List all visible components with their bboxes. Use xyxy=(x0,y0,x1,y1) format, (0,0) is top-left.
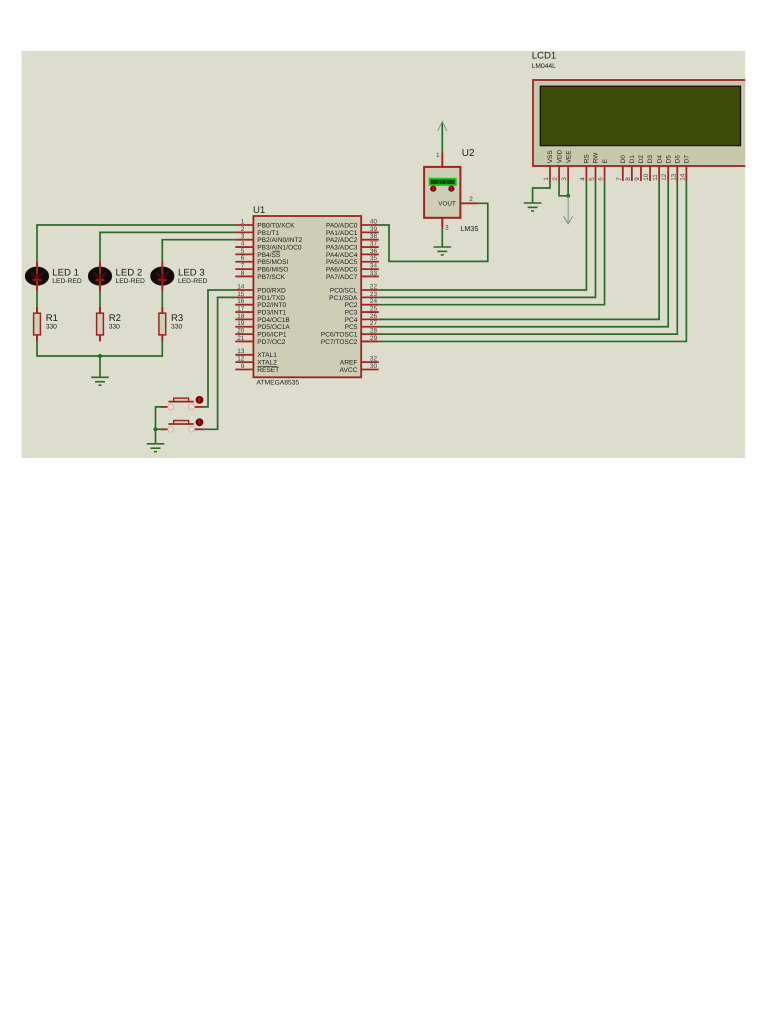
junction ground bus xyxy=(98,354,102,358)
svg-text:VEE: VEE xyxy=(565,150,572,163)
svg-text:LED-RED: LED-RED xyxy=(116,278,146,285)
svg-text:PB5/MOSI: PB5/MOSI xyxy=(257,259,288,266)
svg-text:36: 36 xyxy=(370,248,378,255)
svg-text:14: 14 xyxy=(237,283,245,290)
svg-text:17: 17 xyxy=(237,305,245,312)
pin 37 stub xyxy=(361,246,379,248)
pin 23 stub xyxy=(361,296,379,298)
svg-text:PD5/OC1A: PD5/OC1A xyxy=(257,324,290,331)
svg-text:LED-RED: LED-RED xyxy=(178,278,208,285)
wire PD1 to button2 xyxy=(204,297,236,429)
R1 top stub xyxy=(36,307,38,313)
svg-text:PA3/ADC3: PA3/ADC3 xyxy=(326,244,358,251)
pin 35 stub xyxy=(361,261,379,263)
svg-text:38: 38 xyxy=(370,233,378,240)
button 1 left terminal xyxy=(168,404,174,410)
ground LM35 xyxy=(434,247,452,255)
svg-text:6: 6 xyxy=(241,255,245,262)
svg-text:VDD: VDD xyxy=(556,149,563,163)
svg-text:LED 3: LED 3 xyxy=(178,268,205,279)
LED 2 cathode stub xyxy=(99,281,101,291)
LED 3 diode symbol xyxy=(156,273,169,279)
svg-text:U2: U2 xyxy=(462,148,475,159)
svg-text:29: 29 xyxy=(370,335,378,342)
R2 bottom stub xyxy=(99,335,101,341)
svg-text:5: 5 xyxy=(588,177,595,181)
pin 4 stub xyxy=(235,246,253,248)
LCD pin 1 stub xyxy=(549,166,551,181)
svg-text:40: 40 xyxy=(370,218,378,225)
svg-text:3: 3 xyxy=(241,233,245,240)
svg-text:1: 1 xyxy=(241,218,245,225)
LED 1 anode stub xyxy=(36,262,38,274)
LCD pin 4 stub xyxy=(585,166,587,181)
LCD pin 11 stub xyxy=(658,166,660,181)
svg-text:AREF: AREF xyxy=(340,360,358,367)
wire U2 pin1 power xyxy=(441,123,443,153)
svg-text:37: 37 xyxy=(370,240,378,247)
svg-text:7: 7 xyxy=(616,177,623,181)
svg-text:PC3: PC3 xyxy=(345,309,358,316)
pin 19 stub xyxy=(235,326,253,328)
pin 40 stub xyxy=(361,224,379,226)
svg-text:23: 23 xyxy=(370,291,378,298)
svg-text:R3: R3 xyxy=(171,313,183,324)
svg-text:3: 3 xyxy=(561,177,568,181)
wire PD0 to button1 xyxy=(204,290,236,407)
wire LCD VDD to VEE node xyxy=(559,181,568,196)
R1 bottom stub xyxy=(36,335,38,341)
R3 bottom stub xyxy=(161,335,163,341)
svg-text:10: 10 xyxy=(643,173,650,181)
svg-text:PB6/MISO: PB6/MISO xyxy=(257,267,288,274)
svg-text:PC2: PC2 xyxy=(345,302,358,309)
svg-text:LM044L: LM044L xyxy=(532,63,556,70)
svg-text:R1: R1 xyxy=(46,313,58,324)
pin 33 stub xyxy=(361,275,379,277)
button 2 right terminal xyxy=(189,426,195,432)
svg-text:PC5: PC5 xyxy=(345,324,358,331)
LED 2 body xyxy=(88,267,111,285)
power terminal arrow down (VEE) xyxy=(564,197,573,224)
op-amp U2 body (LM35 sensor) xyxy=(424,167,460,218)
svg-text:PB1/T1: PB1/T1 xyxy=(257,230,279,237)
svg-text:22: 22 xyxy=(370,283,378,290)
wire PC1 to LCD RW xyxy=(379,181,596,297)
svg-text:18: 18 xyxy=(237,313,245,320)
pin 30 stub xyxy=(361,369,379,371)
svg-text:D3: D3 xyxy=(647,155,654,164)
wire PC6 to LCD D6 xyxy=(379,181,677,334)
LED 3 body xyxy=(151,267,174,285)
svg-text:PA4/ADC4: PA4/ADC4 xyxy=(326,252,358,259)
LCD1 body (clipped at sheet edge) xyxy=(533,80,765,166)
svg-text:21: 21 xyxy=(237,335,245,342)
svg-text:PD2/INT0: PD2/INT0 xyxy=(257,302,286,309)
wire LCD VSS to ground xyxy=(533,181,550,203)
R2 top stub xyxy=(99,307,101,313)
pin 7 stub xyxy=(235,268,253,270)
LED 2 diode symbol xyxy=(94,273,107,279)
svg-text:15: 15 xyxy=(237,291,245,298)
svg-text:9: 9 xyxy=(634,177,641,181)
svg-text:13: 13 xyxy=(670,173,677,181)
svg-text:PA0/ADC0: PA0/ADC0 xyxy=(326,222,358,229)
pin 6 stub xyxy=(235,261,253,263)
button 2 base bar xyxy=(169,423,194,425)
wire PC7 to LCD D7 xyxy=(379,181,687,341)
button 1 left stub xyxy=(161,406,168,408)
wire PB0 to LED1 xyxy=(37,225,235,262)
button 2 left terminal xyxy=(168,426,174,432)
LED 1 body xyxy=(25,267,48,285)
svg-text:1: 1 xyxy=(543,177,550,181)
svg-text:D2: D2 xyxy=(638,155,645,164)
svg-text:330: 330 xyxy=(171,324,182,331)
button 1 toggle indicator xyxy=(196,396,204,404)
wire LED2 to R2 xyxy=(99,291,101,307)
U2 pin 2 stub xyxy=(460,202,478,204)
R3 top stub xyxy=(161,307,163,313)
svg-text:14: 14 xyxy=(679,173,686,181)
svg-text:12: 12 xyxy=(661,173,668,181)
svg-text:32: 32 xyxy=(370,356,378,363)
LCD pin 9 stub xyxy=(640,166,642,181)
svg-text:PC0/SCL: PC0/SCL xyxy=(330,287,358,294)
pin 38 stub xyxy=(361,239,379,241)
svg-text:24: 24 xyxy=(370,298,378,305)
LED 3 cathode stub xyxy=(161,281,163,291)
junction VDD-VEE xyxy=(566,194,570,198)
pin 32 stub xyxy=(361,361,379,363)
pin 17 stub xyxy=(235,311,253,313)
LED 2 anode stub xyxy=(99,262,101,274)
wire U2 pin3 to ground xyxy=(441,227,443,247)
wire LCD VEE xyxy=(567,181,569,196)
resistor R1 body xyxy=(34,313,41,335)
svg-text:5: 5 xyxy=(241,248,245,255)
svg-text:6: 6 xyxy=(598,177,605,181)
wire PC5 to LCD D5 xyxy=(379,181,668,327)
svg-text:RW: RW xyxy=(593,152,600,163)
svg-text:VOUT: VOUT xyxy=(438,200,456,207)
LCD pin 2 stub xyxy=(558,166,560,181)
LCD pin 6 stub xyxy=(604,166,606,181)
pin 15 stub xyxy=(235,296,253,298)
svg-text:330: 330 xyxy=(46,324,57,331)
wire PC2 to LCD E xyxy=(379,181,605,305)
resistor R3 body xyxy=(159,313,166,335)
wire PB2 to LED3 xyxy=(162,240,235,262)
pin 28 stub xyxy=(361,333,379,335)
svg-text:PC6/TOSC1: PC6/TOSC1 xyxy=(321,332,358,339)
svg-text:34: 34 xyxy=(370,263,378,270)
svg-text:D7: D7 xyxy=(684,155,691,164)
ground LCD VSS xyxy=(524,203,542,211)
svg-text:11: 11 xyxy=(652,174,659,181)
svg-text:19: 19 xyxy=(237,320,245,327)
svg-text:2: 2 xyxy=(469,196,473,203)
svg-text:D4: D4 xyxy=(656,155,663,164)
svg-text:PD7/OC2: PD7/OC2 xyxy=(257,339,286,346)
svg-text:26: 26 xyxy=(370,313,378,320)
schematic sheet background xyxy=(22,51,746,458)
svg-text:8: 8 xyxy=(625,177,632,181)
LCD pin 3 stub xyxy=(567,166,569,181)
pin 14 stub xyxy=(235,289,253,291)
svg-text:4: 4 xyxy=(241,240,245,247)
LED 1 cathode stub xyxy=(36,281,38,291)
svg-text:3: 3 xyxy=(445,225,449,232)
svg-text:20: 20 xyxy=(237,328,245,335)
svg-text:PA2/ADC2: PA2/ADC2 xyxy=(326,237,358,244)
svg-text:16: 16 xyxy=(237,298,245,305)
U2 up button xyxy=(430,186,436,192)
svg-text:PD6/ICP1: PD6/ICP1 xyxy=(257,332,287,339)
svg-text:LED-RED: LED-RED xyxy=(52,278,82,285)
button 1 right stub xyxy=(195,406,204,408)
wire PB1 to LED2 xyxy=(100,232,235,262)
pin 5 stub xyxy=(235,253,253,255)
pin 26 stub xyxy=(361,318,379,320)
pin 8 stub xyxy=(235,275,253,277)
button 1 base bar xyxy=(169,401,194,403)
wire bus to ground xyxy=(99,356,101,377)
button 1 actuator xyxy=(174,398,189,401)
svg-text:4: 4 xyxy=(579,177,586,181)
LCD pin 5 stub xyxy=(594,166,596,181)
pin 16 stub xyxy=(235,304,253,306)
pin 1 stub xyxy=(235,224,253,226)
pin 36 stub xyxy=(361,253,379,255)
button 1 right terminal xyxy=(189,404,195,410)
svg-text:8: 8 xyxy=(241,270,245,277)
svg-text:PD3/INT1: PD3/INT1 xyxy=(257,309,286,316)
wire LM35 VOUT to PA0 xyxy=(379,203,488,261)
svg-text:PD0/RXD: PD0/RXD xyxy=(257,287,286,294)
svg-text:PD4/OC1B: PD4/OC1B xyxy=(257,317,290,324)
svg-text:LCD1: LCD1 xyxy=(532,51,557,62)
svg-text:30: 30 xyxy=(370,363,378,370)
junction button common xyxy=(153,427,157,431)
pin 22 stub xyxy=(361,289,379,291)
svg-text:35: 35 xyxy=(370,255,378,262)
svg-text:33: 33 xyxy=(370,270,378,277)
LED 1 diode symbol xyxy=(31,273,44,279)
resistor R2 body xyxy=(97,313,104,335)
ground buttons xyxy=(147,444,165,452)
svg-text:PB3/AIN1/OC0: PB3/AIN1/OC0 xyxy=(257,244,302,251)
svg-text:D6: D6 xyxy=(674,155,681,164)
svg-text:13: 13 xyxy=(237,348,245,355)
power terminal arrow up (U2 pin 1) xyxy=(438,122,447,131)
svg-text:RESET: RESET xyxy=(257,367,279,374)
wire resistor ground bus xyxy=(37,341,162,356)
pin 20 stub xyxy=(235,333,253,335)
svg-text:28: 28 xyxy=(370,328,378,335)
svg-text:27.0: 27.0 xyxy=(438,180,448,186)
svg-text:39: 39 xyxy=(370,226,378,233)
svg-text:PA1/ADC1: PA1/ADC1 xyxy=(326,230,358,237)
U2 down button xyxy=(448,186,454,192)
svg-text:XTAL2: XTAL2 xyxy=(257,360,277,367)
svg-text:PC7/TOSC2: PC7/TOSC2 xyxy=(321,339,358,346)
svg-text:LM35: LM35 xyxy=(460,224,478,233)
wire button commons to ground xyxy=(156,407,165,444)
svg-text:R2: R2 xyxy=(109,313,121,324)
svg-text:D5: D5 xyxy=(665,155,672,164)
svg-text:VSS: VSS xyxy=(547,150,554,163)
svg-text:PA6/ADC6: PA6/ADC6 xyxy=(326,267,358,274)
button 2 left stub xyxy=(161,428,168,430)
ground LED bus xyxy=(91,377,109,385)
button 2 actuator xyxy=(174,421,189,424)
svg-text:PA7/ADC7: PA7/ADC7 xyxy=(326,274,358,281)
svg-text:PB2/AIN0/INT2: PB2/AIN0/INT2 xyxy=(257,237,302,244)
svg-text:RS: RS xyxy=(584,154,591,163)
op-amp U1 body (ATMEGA8535 MCU) xyxy=(253,216,361,377)
svg-text:PD1/TXD: PD1/TXD xyxy=(257,295,285,302)
button 2 right stub xyxy=(195,428,204,430)
svg-text:U1: U1 xyxy=(253,205,265,216)
svg-text:PC4: PC4 xyxy=(345,317,358,324)
U2 pin 1 stub xyxy=(441,152,443,167)
U2 pin 3 stub xyxy=(441,218,443,228)
pin 34 stub xyxy=(361,268,379,270)
svg-text:ATMEGA8535: ATMEGA8535 xyxy=(257,379,300,386)
svg-text:D1: D1 xyxy=(629,155,636,164)
svg-text:330: 330 xyxy=(109,324,120,331)
svg-text:12: 12 xyxy=(237,356,245,363)
LCD1 screen xyxy=(540,86,740,145)
svg-text:PB4/SS: PB4/SS xyxy=(257,252,281,259)
pin 13 stub xyxy=(235,354,253,356)
LCD pin 7 stub xyxy=(622,166,624,181)
wire LED1 to R1 xyxy=(36,291,38,307)
svg-text:2: 2 xyxy=(241,226,245,233)
svg-text:AVCC: AVCC xyxy=(340,367,358,374)
wire button2 common xyxy=(156,428,165,430)
LCD pin 8 stub xyxy=(631,166,633,181)
LCD pin 13 stub xyxy=(676,166,678,181)
svg-text:LED 1: LED 1 xyxy=(52,268,79,279)
svg-text:9: 9 xyxy=(241,363,245,370)
pin 2 stub xyxy=(235,231,253,233)
pin 24 stub xyxy=(361,304,379,306)
svg-text:PC1/SDA: PC1/SDA xyxy=(329,295,358,302)
LCD pin 10 stub xyxy=(649,166,651,181)
wire PC4 to LCD D4 xyxy=(379,181,659,319)
pin 29 stub xyxy=(361,340,379,342)
pin 25 stub xyxy=(361,311,379,313)
svg-text:PB0/T0/XCK: PB0/T0/XCK xyxy=(257,222,295,229)
U2 temperature display xyxy=(430,179,456,185)
pin 12 stub xyxy=(235,361,253,363)
pin 21 stub xyxy=(235,340,253,342)
pin 27 stub xyxy=(361,326,379,328)
svg-text:PA5/ADC5: PA5/ADC5 xyxy=(326,259,358,266)
pin 3 stub xyxy=(235,239,253,241)
button 2 toggle indicator xyxy=(196,418,204,426)
svg-text:1: 1 xyxy=(436,152,440,159)
wire LED3 to R3 xyxy=(161,291,163,307)
svg-text:LED 2: LED 2 xyxy=(116,268,143,279)
svg-text:2: 2 xyxy=(552,177,559,181)
pin 9 stub xyxy=(235,369,253,371)
svg-text:27: 27 xyxy=(370,320,378,327)
svg-text:25: 25 xyxy=(370,305,378,312)
pin 18 stub xyxy=(235,318,253,320)
LCD pin 14 stub xyxy=(685,166,687,181)
LED 3 anode stub xyxy=(161,262,163,274)
svg-text:7: 7 xyxy=(241,263,245,270)
pin 39 stub xyxy=(361,231,379,233)
wire PC0 to LCD RS xyxy=(379,181,587,290)
LCD pin 12 stub xyxy=(667,166,669,181)
svg-text:PB7/SCK: PB7/SCK xyxy=(257,274,285,281)
svg-text:D0: D0 xyxy=(620,155,627,164)
svg-text:XTAL1: XTAL1 xyxy=(257,352,277,359)
svg-text:E: E xyxy=(602,159,609,163)
